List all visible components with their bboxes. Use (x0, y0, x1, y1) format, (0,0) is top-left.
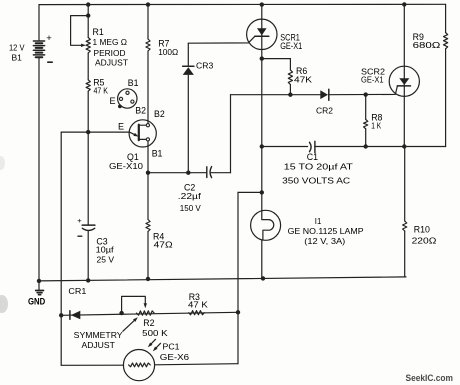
node R8 bottom (364, 144, 368, 148)
wire R6 top lead (289, 59, 291, 70)
resistor R3 (189, 311, 205, 315)
wire R10 top lead (404, 147, 406, 222)
wire C3 to ground bus (87, 231, 89, 281)
node R1 top (86, 2, 90, 6)
svg-text:GE-X1: GE-X1 (280, 41, 302, 51)
wire battery top lead (38, 5, 40, 41)
svg-text:B1: B1 (128, 78, 139, 88)
capacitor C2 (206, 167, 208, 178)
svg-text:CR1: CR1 (68, 286, 86, 296)
capacitor C1 (310, 142, 312, 151)
wire SCR1 gate lead (188, 36, 254, 43)
wire R7 top lead (147, 5, 149, 39)
svg-text:GE-X6: GE-X6 (160, 352, 190, 362)
svg-text:10µf: 10µf (96, 244, 115, 254)
transistor Q1 case bottom view (118, 89, 137, 108)
resistor R1 (86, 37, 90, 53)
svg-text:12 V: 12 V (9, 43, 25, 53)
wire R7 to Q1 B2 (147, 51, 149, 124)
svg-text:100Ω: 100Ω (158, 47, 178, 57)
wire CR3 bottom lead (187, 75, 189, 173)
wire CR2 to SCR2 gate (329, 86, 398, 95)
svg-text:C1: C1 (307, 152, 318, 162)
node ground (37, 279, 41, 283)
resistor R8 (364, 119, 368, 128)
svg-text:ADJUST: ADJUST (82, 340, 115, 350)
transistor Q1 (129, 120, 156, 147)
wire C2 right segment (210, 172, 230, 174)
svg-text:(12 V, 3A): (12 V, 3A) (304, 236, 345, 246)
wire R1 top lead (87, 5, 89, 38)
node lamp ground (261, 276, 265, 280)
wire commutating bus right (315, 146, 446, 148)
svg-text:SeekIC.com: SeekIC.com (406, 373, 454, 384)
wire top bus (39, 3, 446, 5)
photocell PC1 (123, 350, 154, 381)
resistor R2 (137, 311, 155, 315)
svg-text:1 MEG Ω: 1 MEG Ω (93, 37, 128, 47)
node R8 top (364, 92, 368, 96)
wire R1 wiper loop (71, 16, 89, 46)
diode CR3 (183, 65, 194, 67)
wire R9 bottom lead (445, 49, 447, 147)
wire commutating bus left (262, 146, 308, 148)
wire SCR1 cathode to R6 (262, 58, 291, 60)
svg-text:GE-X10: GE-X10 (109, 161, 143, 171)
wire SCR1 anode-cathode column (261, 5, 263, 211)
svg-text:150 V: 150 V (180, 203, 201, 213)
node C3 ground (86, 278, 90, 282)
svg-text:1 K: 1 K (371, 121, 381, 131)
resistor R9 (444, 33, 448, 49)
battery minus sign (48, 61, 52, 63)
resistor R5 (86, 80, 90, 91)
node SCR2 anode (402, 2, 406, 6)
wire CR3 top lead (187, 43, 189, 66)
node R3 right (236, 310, 240, 314)
node R4 ground (146, 277, 150, 281)
light arrow 1 of PC1 (150, 339, 156, 345)
svg-text:+: + (46, 33, 52, 44)
wire CR1 column to PC1 wire (60, 315, 62, 365)
node R2 tap (119, 311, 123, 315)
node SCR1 cathode (260, 56, 264, 60)
svg-text:15 TO 20µf AT: 15 TO 20µf AT (284, 161, 353, 171)
node R1 wiper tap (86, 13, 90, 17)
wire PC1 left lead (61, 364, 123, 366)
svg-text:I1: I1 (315, 216, 322, 226)
svg-text:CR3: CR3 (196, 61, 214, 71)
diode CR1 (69, 311, 71, 320)
wiper arrow of R2 (144, 303, 147, 308)
wire emitter bus drop (60, 132, 62, 315)
svg-text:ADJUST: ADJUST (95, 58, 128, 68)
svg-text:350 VOLTS AC: 350 VOLTS AC (282, 175, 350, 185)
wire R10 bottom lead (404, 231, 406, 277)
capacitor C3 (82, 224, 95, 226)
wire R2 wiper loop (122, 296, 146, 313)
node R6 bottom (288, 93, 292, 97)
svg-text:500 K: 500 K (142, 328, 168, 338)
wire R1-R5 link (87, 53, 89, 80)
wire R4 to ground bus (147, 232, 149, 279)
wire R3 junction column (237, 192, 239, 363)
wire SCR2 anode-cathode column (403, 4, 405, 146)
svg-text:B1: B1 (152, 148, 163, 158)
wire ground bus (39, 277, 406, 281)
resistor R10 (403, 221, 407, 231)
wire lamp bottom lead (261, 240, 263, 278)
svg-text:GND: GND (28, 296, 46, 306)
resistor R6 (288, 70, 292, 85)
wire lamp top tee (238, 191, 262, 193)
wire CR2 left segment (231, 94, 321, 96)
svg-text:220Ω: 220Ω (412, 235, 437, 245)
svg-text:GE-X1: GE-X1 (361, 75, 384, 85)
SCR U1 SCR1 (247, 19, 277, 49)
wire Q1 B1 to R4 (147, 141, 149, 220)
svg-text:R2: R2 (143, 318, 154, 328)
wire Q1 emitter bus (61, 131, 129, 133)
svg-text:680Ω: 680Ω (413, 40, 441, 50)
resistor R4 (146, 220, 150, 232)
wire R9 top lead (445, 4, 447, 32)
wire R6 bottom lead (289, 85, 291, 95)
node CR1 cathode (59, 313, 63, 317)
node SCR1 anode (260, 2, 264, 6)
svg-text:B1: B1 (12, 53, 23, 63)
battery B1 (33, 40, 44, 42)
wire R8 top lead (365, 95, 367, 120)
diode CR2 (320, 90, 328, 99)
svg-text:E: E (118, 122, 124, 132)
wire R8 bottom lead (365, 129, 367, 147)
svg-text:PC1: PC1 (163, 342, 180, 352)
node Q1 B1 junction (146, 171, 150, 175)
svg-text:47Ω: 47Ω (154, 240, 173, 250)
wire CR1-R2-R3 bus (61, 312, 238, 315)
wire PC1 right lead (155, 364, 238, 365)
wire C2 riser (230, 95, 232, 173)
node SCR1 commutating junction (260, 144, 264, 148)
minus sign of C3 (78, 235, 82, 237)
svg-text:R1: R1 (93, 27, 104, 37)
svg-text:GE NO.1125 LAMP: GE NO.1125 LAMP (288, 226, 364, 236)
resistor R7 (146, 39, 150, 51)
svg-text:.22µf: .22µf (178, 191, 202, 201)
svg-text:SYMMETRY: SYMMETRY (74, 330, 123, 340)
wiper arrow of R1 (81, 44, 86, 47)
svg-text:25 V: 25 V (97, 255, 115, 265)
svg-text:B2: B2 (154, 109, 165, 119)
adjust arrow of R2 (123, 320, 135, 332)
node R7 top (146, 2, 150, 6)
svg-text:CR2: CR2 (316, 105, 333, 115)
wire battery bottom lead (38, 58, 40, 281)
light arrow 2 of PC1 (155, 343, 161, 349)
node R5-emitter junction (86, 130, 90, 134)
svg-text:+: + (77, 216, 82, 225)
node SCR2 cathode (402, 144, 406, 148)
svg-text:47K: 47K (294, 74, 312, 84)
wire junction to C3 (87, 132, 89, 225)
svg-text:47 K: 47 K (188, 300, 208, 310)
lamp I1 (251, 210, 281, 240)
ground (38, 281, 40, 290)
node CR3 anode junction (186, 171, 190, 175)
svg-text:B2: B2 (135, 105, 146, 115)
wire C2 left segment (148, 172, 206, 174)
wire R5 to emitter-bus junction (87, 91, 89, 132)
svg-text:R10: R10 (414, 225, 430, 235)
svg-text:47 K: 47 K (94, 85, 109, 95)
SCR U2 SCR2 (389, 66, 419, 96)
svg-text:E: E (110, 96, 116, 106)
node lamp top junction (260, 190, 264, 194)
svg-text:PERIOD: PERIOD (94, 48, 126, 58)
